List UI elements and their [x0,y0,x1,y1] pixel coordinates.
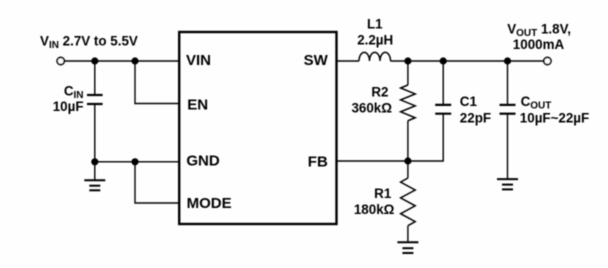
svg-text:10µF~22µF: 10µF~22µF [520,110,589,125]
svg-text:10µF: 10µF [53,99,84,114]
svg-text:EN: EN [187,97,208,114]
ground (input side) [84,162,105,191]
svg-text:R1: R1 [374,186,392,201]
node: COUT junction on output bus [504,57,511,64]
svg-text:22pF: 22pF [460,111,491,126]
wire: MODE connection [135,162,179,203]
svg-text:1000mA: 1000mA [513,37,565,52]
svg-text:GND: GND [186,153,220,170]
output terminal (open circle) [544,57,551,64]
svg-text:2.2µH: 2.2µH [357,32,393,47]
svg-text:360kΩ: 360kΩ [351,100,392,115]
svg-text:SW: SW [304,52,329,69]
ground (R1) [397,242,418,253]
svg-text:R2: R2 [371,85,388,100]
node: EN junction on VIN bus [131,57,138,64]
svg-text:L1: L1 [367,16,383,31]
resistor R2 [401,61,416,161]
resistor R1 [401,161,416,242]
svg-text:C1: C1 [460,94,478,109]
capacitor C1 [435,61,451,114]
node: R2 junction on output bus [404,57,411,64]
wire: VIN input bus [64,60,179,62]
svg-text:FB: FB [308,153,328,170]
inductor L1 [359,52,391,61]
IC U1 body [179,32,336,224]
wire: EN connection [135,61,179,104]
wire: GND bus [95,161,179,163]
svg-text:180kΩ: 180kΩ [354,202,395,217]
input terminal (open circle) [57,57,64,64]
node: ground junction [91,158,98,165]
capacitor COUT [500,61,516,179]
svg-text:VIN: VIN [186,52,211,69]
wire: output bus [391,60,544,62]
wire: FB net [337,114,444,161]
node: CIN junction on VIN bus [91,57,98,64]
ground (COUT) [497,179,518,189]
svg-text:MODE: MODE [187,195,232,212]
node: MODE junction [131,158,138,165]
wire: SW to inductor [337,60,360,62]
node: C1 junction on output bus [440,57,447,64]
capacitor CIN [87,61,103,162]
node: FB junction [404,157,411,164]
